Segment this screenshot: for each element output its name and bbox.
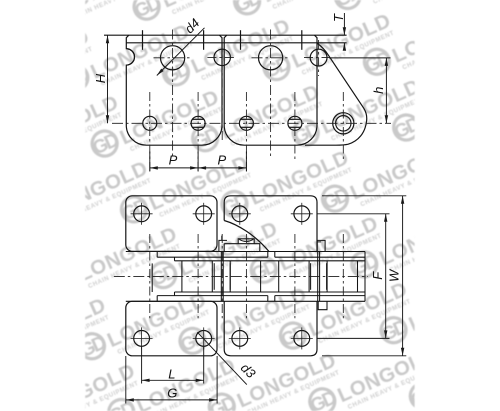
pin 4 centerline plan <box>294 234 296 318</box>
chain axis centerline plan <box>114 275 368 277</box>
arrow F bottom <box>384 330 387 338</box>
chain right end vertical <box>364 252 366 302</box>
svg-text:W: W <box>387 268 402 282</box>
attachment plate top-right (plan) with bend fillet <box>224 196 317 252</box>
dim L extension left <box>141 347 143 384</box>
center lines of side view <box>112 30 391 172</box>
flange hole tick 3 <box>240 30 242 50</box>
dim W extension top <box>322 195 406 197</box>
dim T line upper <box>343 13 345 35</box>
dim W extension bottom <box>322 355 406 357</box>
dimensions plan view <box>126 196 407 404</box>
arrow H bottom <box>106 115 109 123</box>
dim W line <box>402 196 404 356</box>
inner plate line C2 <box>175 291 366 293</box>
dim h line <box>385 58 387 123</box>
roller at pin 2 <box>181 261 183 292</box>
svg-text:P: P <box>169 153 178 168</box>
dim P line <box>150 167 247 169</box>
hole crosshairs top-left plate <box>131 203 313 350</box>
spacer centerline plan mid <box>221 234 223 318</box>
arrow H top <box>106 35 109 43</box>
arrow P1P2 double at middle <box>190 166 198 169</box>
flange hole tick 4 <box>301 30 303 50</box>
leader d4 <box>157 28 205 76</box>
d4 hole horizontal centerline right <box>252 57 291 59</box>
outer plate inner line B2 segments <box>157 295 268 297</box>
arrow L right <box>196 379 204 382</box>
chain outer top line A <box>126 251 365 253</box>
arrow W top <box>401 196 404 204</box>
large attachment hole d4 right <box>259 46 283 70</box>
tongue edge verticals at mid <box>220 252 222 302</box>
arrow T down <box>343 27 346 35</box>
bush centerline horizontal mid <box>207 56 236 58</box>
leader d3 <box>197 332 247 384</box>
chain outer bottom line A2 <box>126 300 365 302</box>
pin 2 vertical centerline <box>197 92 199 171</box>
pin 4 vertical centerline <box>294 92 296 160</box>
arrow P1 left <box>150 166 158 169</box>
arrow h top <box>385 58 388 66</box>
roller at pin 5 <box>326 261 328 292</box>
svg-text:L: L <box>168 366 175 381</box>
roller on pin 5 <box>333 113 354 134</box>
pin hole 1 <box>143 116 157 130</box>
hole top-right plate 1 <box>232 206 248 222</box>
pin 1 centerline plan <box>149 234 151 318</box>
inner plate end verticals <box>174 257 176 261</box>
dim P extension tick 2 <box>197 152 199 172</box>
d4 hole vertical centerline right <box>270 30 272 157</box>
svg-text:F: F <box>370 271 385 280</box>
hole top-right plate 2 <box>294 206 310 222</box>
attachment plate bottom-right (plan) <box>224 301 317 356</box>
roller at pin 3 <box>229 261 231 292</box>
hole bottom-right plate 1 <box>232 331 248 347</box>
svg-text:G: G <box>167 386 177 401</box>
arrow G right <box>209 398 217 401</box>
dim L extension right <box>203 347 205 384</box>
arrow h bottom <box>385 115 388 123</box>
svg-text:P: P <box>217 153 226 168</box>
d4 hole horizontal centerline left <box>154 57 193 59</box>
chain pin axis centerline <box>112 122 391 124</box>
spacer bush circle at right plate edge <box>310 49 327 66</box>
pin 1 vertical centerline <box>149 92 151 171</box>
bush centerline vertical mid <box>221 44 223 141</box>
pin 3 centerline plan <box>245 234 247 318</box>
spacer bush cell right <box>310 263 312 290</box>
bush centerline horizontal right <box>304 57 331 59</box>
bush centerline vertical right <box>318 40 320 76</box>
svg-text:h: h <box>371 87 386 94</box>
spacer bush circle at plate junction <box>214 49 230 65</box>
pin hole 4 <box>288 116 302 130</box>
dim P extension tick 3 <box>245 152 247 172</box>
dim L line <box>142 379 204 381</box>
labels side view <box>93 13 386 168</box>
arrowheads side view <box>106 27 388 169</box>
top flange inner bend line <box>126 42 346 44</box>
left end step verticals <box>156 252 158 258</box>
bent tongue side profile (teardrop) <box>305 44 367 146</box>
arrow L left <box>142 379 150 382</box>
pin 3 vertical centerline <box>245 92 247 171</box>
attachment plate right (side view) <box>224 35 317 145</box>
half bush notch on left plate edge <box>126 49 134 65</box>
countersunk washer dish <box>238 239 254 244</box>
labels plan view <box>167 268 401 401</box>
pin 2 centerline plan <box>197 234 199 318</box>
flange hole tick 2 <box>203 30 205 50</box>
dim F extension bottom <box>317 337 390 339</box>
top flange outer edge line <box>104 34 347 36</box>
dim P extension tick 1 <box>149 152 151 172</box>
svg-text:H: H <box>93 73 108 83</box>
arrow d4 leader <box>157 69 164 76</box>
large attachment hole d4 left <box>161 46 185 70</box>
outer plate inner line B segments <box>157 256 268 258</box>
dim G line <box>126 399 217 401</box>
dim G extension right <box>216 356 218 404</box>
arrow F top <box>384 214 387 222</box>
outer plate end verticals at 267.8 <box>267 252 269 258</box>
pin hole 2 <box>191 116 205 130</box>
dimensions of side view <box>108 13 391 172</box>
svg-text:T: T <box>331 13 346 22</box>
attachment plate left (side view) <box>126 35 222 145</box>
centerlines plan view <box>114 203 368 350</box>
tongue edge verticals at right <box>317 252 319 302</box>
roller at pin 4 <box>278 261 280 292</box>
arrow G left <box>126 398 134 401</box>
pin hole 3 <box>239 116 253 130</box>
hole bottom-left plate 2 <box>196 331 212 347</box>
dim G extension left <box>125 356 127 404</box>
chain plan lines <box>126 236 365 310</box>
outer plate start verticals at 274.8 <box>274 252 276 258</box>
hole top-left plate 1 <box>134 206 150 222</box>
spacer bush cell mid <box>213 263 215 290</box>
dim H line <box>107 35 109 123</box>
arrow W bottom <box>401 348 404 356</box>
inner plate line C <box>175 260 366 262</box>
hole bottom-right plate 2 <box>294 331 310 347</box>
bent foot bracket above chain left <box>219 236 227 252</box>
attachment plate bottom-left (plan) <box>126 301 217 356</box>
attachment plate top-left (plan) <box>126 196 217 252</box>
dim T line lower <box>343 43 345 50</box>
bend fillet curve of top-right plate <box>224 221 269 252</box>
bent foot bracket above chain right <box>317 240 325 251</box>
d4 hole vertical centerline left <box>172 30 174 157</box>
flange hole tick 1 <box>142 30 144 50</box>
hole top-left plate 2 <box>196 206 212 222</box>
pin 5 vertical centerline <box>342 92 344 160</box>
dim h extension line <box>329 57 391 59</box>
arrowheads plan view <box>126 196 405 402</box>
bent foot plate above chain <box>224 244 260 252</box>
arrow T up <box>343 43 346 51</box>
dim F extension top <box>317 213 390 215</box>
dim F line <box>385 214 387 339</box>
pin 5 centerline plan <box>342 234 344 318</box>
bent foot bracket below chain right <box>318 301 327 309</box>
arrow P2 right <box>238 166 246 169</box>
hole bottom-left plate 1 <box>134 331 150 347</box>
left end bush edge vertical <box>151 263 153 292</box>
